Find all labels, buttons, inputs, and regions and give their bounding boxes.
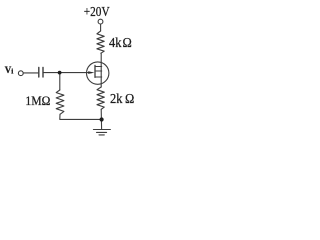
transistor Q1 middle stub <box>95 70 102 72</box>
ground bar 3 <box>99 134 104 136</box>
input terminal Vi <box>18 71 23 76</box>
wire RG bottom to ground rail <box>60 114 102 119</box>
wire gate <box>60 72 92 74</box>
junction node ground rail <box>100 117 104 121</box>
svg-text:+20V: +20V <box>84 5 110 20</box>
wire capacitor to gate node <box>44 72 60 74</box>
svg-text:2k Ω: 2k Ω <box>110 92 134 107</box>
ground bar 2 <box>97 131 107 133</box>
resistor RG 1M <box>56 90 64 114</box>
wire gate node to RG <box>59 73 61 90</box>
svg-text:1MΩ: 1MΩ <box>25 93 50 108</box>
wire source <box>100 77 102 87</box>
wire RS bottom to ground <box>100 109 102 129</box>
transistor Q1 source stub <box>95 76 102 78</box>
junction node gate <box>58 71 62 75</box>
wire supply to RD <box>100 24 102 31</box>
transistor Q1 channel bar <box>94 65 96 77</box>
ground bar 1 <box>93 129 110 131</box>
svg-text:4k Ω: 4k Ω <box>109 36 132 51</box>
resistor RS 2k <box>97 87 104 109</box>
transistor Q1 body <box>87 62 109 84</box>
svg-text:Vi: Vi <box>5 65 14 76</box>
transistor Q1 internal lead <box>100 67 102 78</box>
resistor RD 4k <box>97 31 104 53</box>
capacitor C1 left plate <box>38 67 40 77</box>
wire input terminal to capacitor <box>23 72 38 74</box>
transistor Q1 drain stub <box>95 66 102 68</box>
supply terminal +20V <box>98 19 103 24</box>
capacitor C1 right plate <box>42 67 44 77</box>
wire drain <box>100 53 102 66</box>
gate arrowhead <box>88 71 94 74</box>
